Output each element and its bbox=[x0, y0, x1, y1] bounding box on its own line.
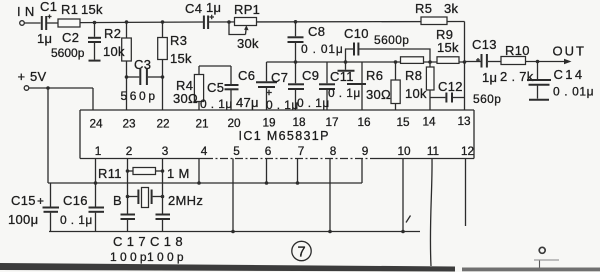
svg-text:C5: C5 bbox=[207, 80, 224, 95]
svg-text:3k: 3k bbox=[444, 1, 459, 16]
svg-text:C13: C13 bbox=[472, 37, 497, 52]
svg-text:OUT: OUT bbox=[553, 44, 586, 59]
resistor R8b vertical bbox=[426, 60, 434, 110]
wire main top rail bbox=[80, 21, 204, 24]
svg-text:3: 3 bbox=[162, 144, 169, 158]
wire pin6 stub bbox=[265, 159, 269, 185]
svg-text:14: 14 bbox=[422, 115, 436, 129]
svg-text:C12: C12 bbox=[438, 79, 463, 94]
svg-text:47μ: 47μ bbox=[236, 95, 259, 110]
svg-text:C11: C11 bbox=[330, 69, 354, 84]
capacitor C18 bbox=[147, 215, 187, 265]
svg-text:0 . 01μ: 0 . 01μ bbox=[301, 42, 344, 56]
wire 5V to pin24 bbox=[29, 86, 93, 110]
resistor R3 bbox=[158, 20, 192, 77]
svg-text:R8: R8 bbox=[405, 68, 422, 83]
svg-text:R10: R10 bbox=[505, 43, 530, 58]
svg-text:5600p: 5600p bbox=[51, 46, 85, 60]
capacitor C15 bbox=[8, 183, 59, 232]
capacitor C6 bbox=[236, 62, 277, 110]
resistor R2 bbox=[103, 20, 131, 77]
resistor R4 bbox=[173, 66, 204, 110]
svg-text:C14: C14 bbox=[554, 67, 585, 82]
wire mid horizontal rail below IC bbox=[48, 182, 362, 184]
wire IN to C1 bbox=[24, 22, 40, 24]
svg-text:7: 7 bbox=[297, 244, 305, 261]
wire pin3 column bbox=[162, 159, 164, 214]
svg-text:1μ: 1μ bbox=[37, 31, 52, 46]
wire R4 to C5 bbox=[199, 65, 231, 67]
svg-text:30k: 30k bbox=[237, 36, 259, 51]
svg-text:R2: R2 bbox=[104, 26, 121, 41]
capacitor C13 bbox=[465, 37, 502, 85]
capacitor C5 bbox=[200, 66, 239, 111]
svg-text:24: 24 bbox=[89, 117, 103, 131]
node figure number 7 bbox=[292, 241, 311, 260]
svg-text:15k: 15k bbox=[170, 51, 192, 66]
svg-text:C7: C7 bbox=[271, 70, 288, 85]
svg-text:2: 2 bbox=[126, 144, 133, 158]
wire pin11 long bbox=[430, 159, 432, 267]
wire pin22 column bbox=[162, 77, 164, 110]
capacitor C3 bbox=[121, 57, 165, 103]
svg-text:C17: C17 bbox=[113, 234, 150, 249]
svg-text:560p: 560p bbox=[121, 89, 158, 103]
wire ground rail bbox=[49, 231, 420, 233]
svg-text:5V: 5V bbox=[30, 69, 47, 84]
capacitor C16 bbox=[60, 159, 104, 232]
svg-text:R3: R3 bbox=[170, 33, 187, 48]
svg-text:C3: C3 bbox=[134, 57, 151, 72]
resistor R9 bbox=[436, 27, 459, 63]
svg-text:C9: C9 bbox=[302, 68, 319, 83]
svg-text:I N: I N bbox=[17, 4, 35, 19]
svg-text:560p: 560p bbox=[473, 92, 501, 106]
resistor R10 bbox=[500, 43, 534, 84]
wire pin10 column bbox=[401, 159, 405, 234]
svg-text:R6: R6 bbox=[366, 68, 383, 83]
capacitor C10 bbox=[344, 26, 430, 64]
capacitor C2 bbox=[51, 23, 101, 61]
wire bottom scan band right bbox=[462, 268, 600, 272]
node junction R1/C2 bbox=[93, 21, 97, 25]
svg-text:5: 5 bbox=[233, 144, 240, 158]
svg-text:30Ω: 30Ω bbox=[173, 91, 198, 106]
svg-text:17: 17 bbox=[325, 115, 338, 129]
svg-text:R1: R1 bbox=[61, 2, 78, 17]
svg-text:1 M: 1 M bbox=[167, 166, 190, 181]
svg-text:2MHz: 2MHz bbox=[168, 193, 203, 208]
svg-text:C15: C15 bbox=[11, 193, 36, 208]
svg-text:15k: 15k bbox=[81, 2, 103, 17]
svg-text:R5: R5 bbox=[415, 1, 432, 16]
wire slash mark bbox=[406, 216, 411, 223]
wire main top rail right part bbox=[208, 21, 464, 24]
svg-text:0 . 1μ: 0 . 1μ bbox=[60, 213, 93, 227]
svg-text:18: 18 bbox=[292, 115, 306, 129]
svg-text:16: 16 bbox=[357, 115, 371, 129]
wire pin8 column bbox=[328, 159, 332, 234]
capacitor C14 bbox=[527, 62, 594, 100]
svg-text:C18: C18 bbox=[150, 234, 187, 249]
svg-text:10k: 10k bbox=[103, 44, 125, 59]
resistor R5 bbox=[415, 1, 459, 25]
wire bottom scan band left bbox=[0, 263, 455, 272]
resistor R6 bbox=[366, 60, 400, 110]
svg-text:5600p: 5600p bbox=[374, 33, 409, 47]
svg-text:C8: C8 bbox=[308, 24, 325, 39]
capacitor C4 bbox=[185, 0, 221, 29]
svg-text:1: 1 bbox=[95, 144, 102, 158]
svg-text:100p: 100p bbox=[147, 250, 187, 264]
svg-text:21: 21 bbox=[195, 117, 208, 131]
svg-text:C4: C4 bbox=[185, 1, 202, 16]
wire pin13 column bbox=[463, 22, 467, 111]
svg-text:0 . 1μ: 0 . 1μ bbox=[328, 86, 361, 100]
wire pin4 stub bbox=[197, 159, 201, 185]
node bottom-right terminal bbox=[534, 247, 559, 269]
svg-text:0 . 1μ: 0 . 1μ bbox=[200, 97, 233, 111]
svg-text:IC1 M65831P: IC1 M65831P bbox=[239, 129, 330, 143]
svg-text:6: 6 bbox=[265, 144, 272, 158]
svg-text:30Ω: 30Ω bbox=[366, 87, 391, 102]
svg-text:4: 4 bbox=[201, 144, 208, 158]
capacitor C1 bbox=[37, 0, 58, 46]
svg-text:23: 23 bbox=[122, 117, 136, 131]
resistor R11 bbox=[98, 166, 190, 181]
wire 5V down column bbox=[47, 88, 49, 183]
svg-text:7: 7 bbox=[298, 144, 305, 158]
svg-text:13: 13 bbox=[457, 114, 471, 128]
svg-text:C2: C2 bbox=[62, 30, 79, 45]
svg-text:100p: 100p bbox=[110, 250, 150, 264]
svg-text:8: 8 bbox=[330, 144, 337, 158]
svg-text:15k: 15k bbox=[437, 40, 459, 55]
svg-text:100μ: 100μ bbox=[8, 212, 38, 227]
capacitor C7 bbox=[266, 62, 304, 112]
svg-text:2 . 7k: 2 . 7k bbox=[500, 69, 534, 84]
capacitor C9 bbox=[297, 62, 335, 110]
svg-text:19: 19 bbox=[262, 116, 275, 130]
wire pin12 stub bbox=[465, 159, 467, 227]
svg-text:0 . 1μ: 0 . 1μ bbox=[297, 96, 330, 110]
svg-text:0 . 01μ: 0 . 01μ bbox=[553, 85, 594, 99]
wire pin5 column bbox=[231, 159, 235, 234]
svg-text:22: 22 bbox=[156, 117, 169, 131]
capacitor C8 bbox=[288, 20, 344, 64]
svg-text:10: 10 bbox=[397, 144, 411, 158]
svg-text:12: 12 bbox=[461, 144, 474, 158]
svg-text:B: B bbox=[113, 193, 122, 208]
node +5V terminal bbox=[18, 69, 47, 90]
svg-text:10k: 10k bbox=[405, 86, 427, 101]
potentiometer RP1 bbox=[227, 2, 260, 51]
svg-text:11: 11 bbox=[427, 144, 439, 158]
wire mid rail bbox=[267, 61, 465, 63]
svg-text:C10: C10 bbox=[344, 26, 369, 41]
svg-text:C6: C6 bbox=[238, 68, 255, 83]
svg-text:C16: C16 bbox=[63, 193, 88, 208]
svg-text:+: + bbox=[18, 69, 26, 84]
wire pin9 stub bbox=[361, 159, 363, 184]
op-amp U1 IC body bbox=[80, 110, 474, 159]
wire pin23 column bbox=[126, 77, 128, 110]
node OUT arrow bbox=[526, 44, 586, 65]
svg-text:9: 9 bbox=[362, 144, 369, 158]
wire pin2 column bbox=[127, 159, 129, 214]
crystal B 2MHz bbox=[113, 188, 203, 209]
wire pin16 column bbox=[361, 62, 363, 110]
svg-text:1μ: 1μ bbox=[206, 0, 221, 15]
resistor R1 bbox=[58, 2, 103, 27]
capacitor C12 bbox=[430, 79, 501, 106]
resistor R8 horizontal bbox=[401, 57, 428, 101]
svg-text:RP1: RP1 bbox=[234, 2, 260, 17]
svg-text:15: 15 bbox=[396, 115, 410, 129]
svg-text:1μ: 1μ bbox=[482, 70, 497, 85]
svg-text:R11: R11 bbox=[98, 166, 122, 181]
svg-text:20: 20 bbox=[227, 116, 241, 130]
capacitor C17 bbox=[110, 215, 150, 265]
capacitor C11 bbox=[328, 62, 366, 100]
node IN terminal bbox=[17, 4, 35, 25]
wire pin7 stub bbox=[296, 159, 300, 185]
svg-text:C1: C1 bbox=[40, 0, 57, 14]
